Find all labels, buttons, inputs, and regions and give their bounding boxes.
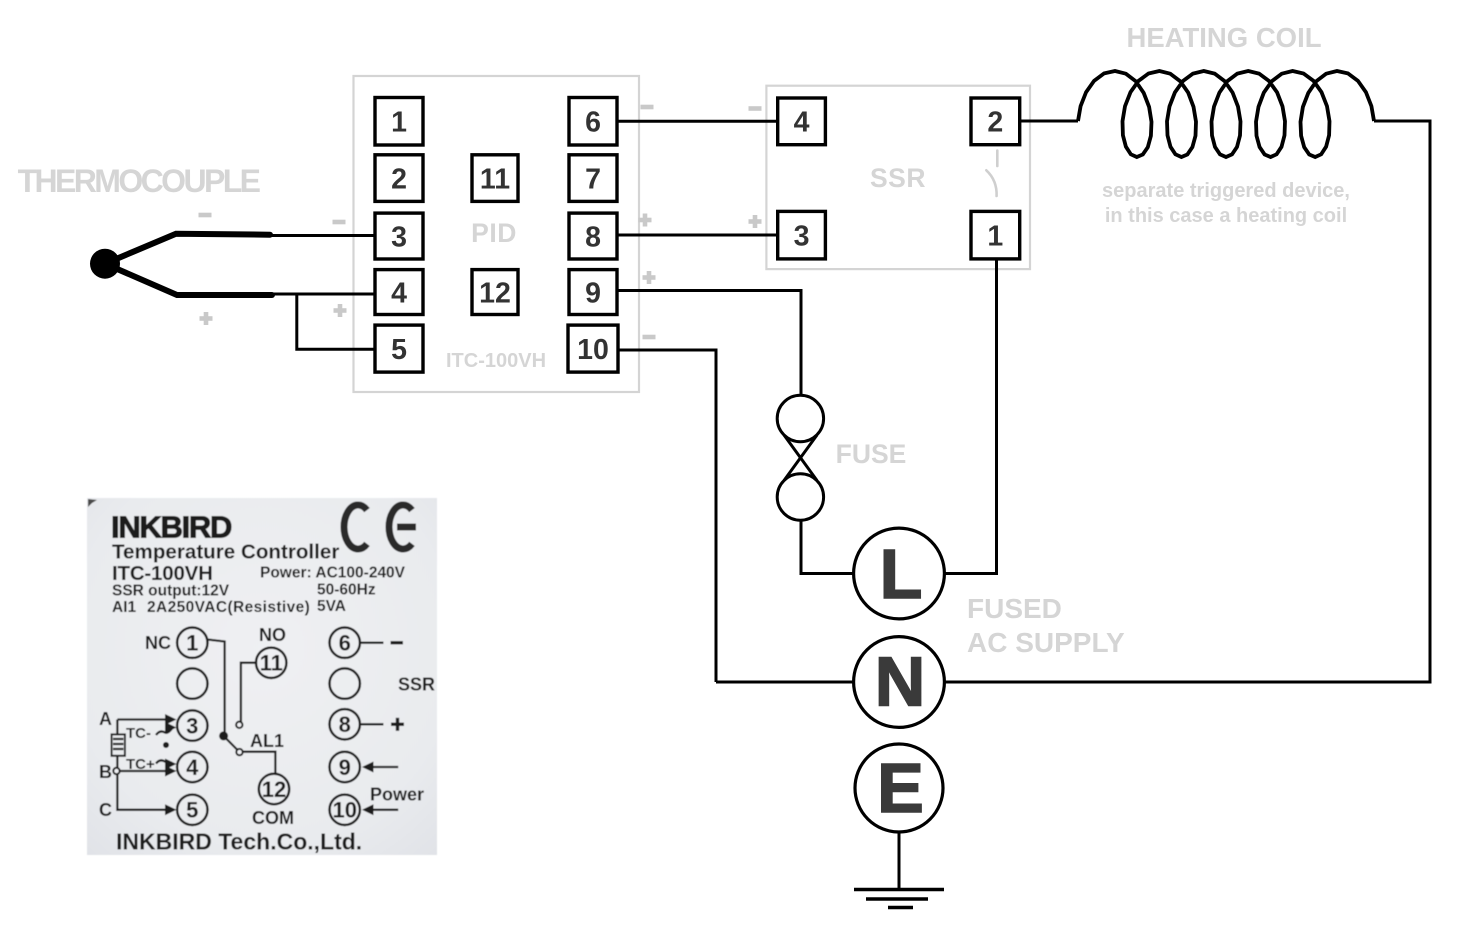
- svg-text:9: 9: [339, 755, 351, 780]
- svg-text:HEATING COIL: HEATING COIL: [1126, 22, 1321, 53]
- svg-text:INKBIRD Tech.Co.,Ltd.: INKBIRD Tech.Co.,Ltd.: [116, 829, 362, 855]
- svg-text:5VA: 5VA: [317, 598, 346, 615]
- svg-text:4: 4: [186, 755, 199, 780]
- svg-text:2: 2: [391, 163, 407, 195]
- svg-text:separate triggered device,: separate triggered device,: [1102, 180, 1350, 202]
- svg-text:8: 8: [585, 221, 601, 253]
- svg-text:TC-: TC-: [126, 725, 151, 742]
- svg-text:COM: COM: [252, 808, 294, 828]
- svg-text:10: 10: [577, 334, 609, 366]
- svg-text:1: 1: [391, 107, 407, 139]
- svg-text:Power: AC100-240V: Power: AC100-240V: [260, 565, 406, 582]
- svg-text:5: 5: [186, 798, 198, 823]
- svg-text:A: A: [99, 709, 112, 729]
- svg-text:N: N: [875, 643, 926, 721]
- svg-text:B: B: [99, 762, 112, 782]
- svg-text:FUSE: FUSE: [836, 439, 907, 469]
- svg-text:1: 1: [987, 220, 1003, 252]
- svg-text:SSR output:12V: SSR output:12V: [112, 583, 230, 600]
- svg-text:SSR: SSR: [398, 675, 435, 695]
- svg-text:INKBIRD: INKBIRD: [111, 510, 232, 545]
- svg-text:6: 6: [585, 107, 601, 139]
- svg-text:3: 3: [391, 221, 407, 253]
- svg-text:6: 6: [339, 631, 351, 656]
- svg-text:NC: NC: [145, 633, 171, 653]
- svg-text:FUSED: FUSED: [967, 593, 1062, 624]
- svg-text:E: E: [877, 749, 924, 827]
- svg-text:AI1: AI1: [112, 599, 137, 616]
- svg-text:11: 11: [480, 163, 510, 195]
- svg-text:3: 3: [794, 220, 810, 252]
- svg-text:11: 11: [260, 651, 283, 676]
- svg-text:L: L: [880, 535, 923, 613]
- svg-text:Temperature Controller: Temperature Controller: [112, 541, 339, 564]
- svg-text:7: 7: [585, 163, 601, 195]
- svg-text:AL1: AL1: [250, 731, 284, 751]
- svg-text:12: 12: [262, 777, 286, 802]
- svg-text:NO: NO: [259, 625, 286, 645]
- svg-text:2A250VAC(Resistive): 2A250VAC(Resistive): [147, 599, 310, 616]
- svg-text:3: 3: [186, 714, 198, 739]
- svg-text:9: 9: [585, 277, 601, 309]
- svg-text:10: 10: [332, 798, 356, 823]
- svg-text:4: 4: [391, 277, 407, 309]
- svg-text:THERMOCOUPLE: THERMOCOUPLE: [18, 163, 261, 199]
- svg-text:C: C: [99, 800, 112, 820]
- svg-text:SSR: SSR: [870, 163, 926, 193]
- svg-text:Power: Power: [370, 785, 424, 805]
- svg-text:1: 1: [186, 631, 198, 656]
- svg-text:50-60Hz: 50-60Hz: [317, 582, 376, 599]
- svg-text:4: 4: [794, 107, 810, 139]
- svg-text:5: 5: [391, 334, 407, 366]
- svg-text:ITC-100VH: ITC-100VH: [446, 350, 546, 372]
- svg-text:AC SUPPLY: AC SUPPLY: [967, 627, 1125, 658]
- svg-text:2: 2: [987, 107, 1003, 139]
- svg-text:in this case a heating coil: in this case a heating coil: [1105, 205, 1347, 227]
- svg-text:PID: PID: [471, 218, 517, 248]
- svg-text:8: 8: [339, 712, 351, 737]
- svg-text:12: 12: [479, 277, 511, 309]
